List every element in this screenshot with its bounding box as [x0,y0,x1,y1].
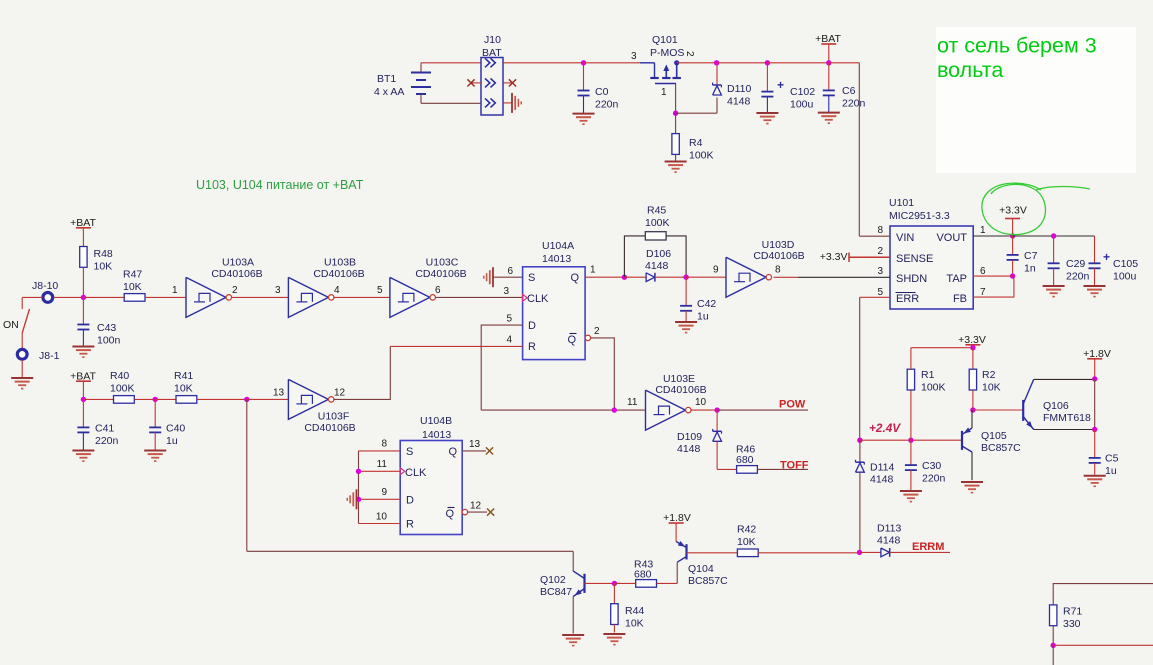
resistor R47 10K [83,296,124,298]
svg-text:100K: 100K [689,150,714,162]
svg-text:C41: C41 [95,423,114,435]
resistor R71 330 [1050,605,1057,626]
svg-text:9: 9 [713,265,719,276]
svg-text:100n: 100n [97,335,121,347]
node R41 to U103F [244,397,249,402]
svg-text:R45: R45 [647,205,666,217]
wire long bottom net [247,550,573,552]
svg-text:100K: 100K [921,382,946,394]
svg-text:VOUT: VOUT [936,232,967,244]
capacitor C40 1u [154,399,156,427]
resistor R43 680 [614,582,635,584]
svg-text:BC857C: BC857C [688,575,728,587]
svg-text:Q102: Q102 [540,574,566,586]
svg-text:1n: 1n [1024,263,1036,275]
svg-text:C105: C105 [1113,258,1138,270]
capacitor C0 [581,60,586,65]
wire to U103D input pin 9 [686,276,726,278]
diode D110 4148 [716,63,718,85]
ground below C102 [756,112,778,114]
capacitor C5 1u [1094,430,1096,458]
svg-text:U104A: U104A [542,240,574,252]
svg-text:2: 2 [877,246,883,257]
svg-text:1: 1 [661,87,667,98]
svg-text:D106: D106 [646,248,671,260]
capacitor C6 220n [828,63,830,91]
svg-text:1u: 1u [697,311,709,323]
svg-text:C30: C30 [922,460,941,472]
svg-text:MIC2951-3.3: MIC2951-3.3 [889,210,950,222]
node +2.4V on ERR line [857,438,862,443]
svg-text:R2: R2 [982,369,996,381]
svg-text:1: 1 [590,265,596,276]
wire gate node to D110 [676,112,717,114]
svg-text:CD40106B: CD40106B [304,422,355,434]
wire FB pin 7 [973,276,1014,297]
node at R48 bottom [81,295,86,300]
svg-text:330: 330 [1063,618,1081,630]
svg-text:CD40106B: CD40106B [211,268,262,280]
wire +1.8V rail [1094,379,1096,430]
svg-text:R41: R41 [174,370,193,382]
svg-text:R48: R48 [94,248,113,260]
wire U104A D pin 5 [481,325,522,410]
svg-text:4148: 4148 [645,260,669,272]
svg-text:1: 1 [172,285,178,296]
wire R71 to bottom edge [1052,645,1054,665]
svg-text:+: + [777,78,784,92]
resistor R44 10K [613,583,615,603]
wire U103F out to U104A R [334,346,390,399]
svg-text:4: 4 [334,285,340,296]
svg-text:S: S [528,272,535,284]
svg-text:1u: 1u [166,435,178,447]
ground below C40 [144,450,166,452]
svg-text:8: 8 [381,439,387,450]
wire SHDN pin 3 from U103D [774,276,799,278]
svg-text:220n: 220n [842,98,866,110]
ground at U104B inputs [356,489,358,509]
svg-text:R42: R42 [737,524,756,536]
svg-text:Q101: Q101 [652,34,678,46]
ground below C6 [818,112,840,114]
svg-text:TAP: TAP [946,273,967,285]
diode D109 4148 [716,410,718,431]
wire ERR pin 5 [860,296,890,298]
wire top right net [1053,584,1153,605]
ground below C0 [573,113,595,115]
wire J8-10 to switch [22,296,42,298]
capacitor C29 220n [1053,236,1055,263]
svg-text:D109: D109 [677,431,702,443]
svg-text:D: D [406,495,414,507]
svg-text:FB: FB [953,293,967,305]
ground below C41 [72,450,94,452]
svg-text:R47: R47 [123,269,142,281]
svg-text:P-MOS: P-MOS [650,47,684,59]
diode D114 4148 [859,440,861,461]
wire R2 to Q106 base [973,409,1023,411]
net label POW [691,409,717,411]
svg-text:CD40106B: CD40106B [655,384,706,396]
svg-text:R44: R44 [625,605,644,617]
capacitor C42 1u [685,277,687,306]
svg-text:C40: C40 [166,423,185,435]
svg-text:100u: 100u [1113,271,1137,283]
white note box [936,27,1136,173]
svg-text:+3.3V: +3.3V [820,251,848,263]
svg-text:R40: R40 [110,370,129,382]
svg-text:Q104: Q104 [688,563,714,575]
svg-text:1: 1 [980,225,986,236]
svg-text:10K: 10K [982,382,1001,394]
svg-text:100K: 100K [645,217,670,229]
ground below R44 [603,633,625,635]
svg-text:VIN: VIN [896,232,914,244]
svg-text:10K: 10K [625,618,644,630]
svg-text:Q106: Q106 [1043,400,1069,412]
svg-text:Q: Q [448,446,457,458]
resistor R1 100K [910,390,912,440]
capacitor C43 100n [82,297,84,324]
svg-text:6: 6 [980,266,986,277]
svg-text:FMMT618: FMMT618 [1043,412,1091,424]
svg-text:C5: C5 [1105,453,1119,465]
svg-text:11: 11 [627,397,638,408]
svg-text:3: 3 [877,266,883,277]
svg-text:D: D [528,320,536,332]
resistor R2 10K [972,348,974,370]
node below R71 [1051,643,1056,648]
svg-text:CD40106B: CD40106B [753,250,804,262]
svg-text:100K: 100K [110,383,135,395]
wire U104A R pin 4 [390,345,522,347]
svg-text:CD40106B: CD40106B [313,268,364,280]
wire +BAT rail to VIN corner [829,62,860,64]
ground below J8-1 [11,377,33,379]
svg-text:220n: 220n [922,473,946,485]
svg-text:C102: C102 [790,86,815,98]
svg-text:6: 6 [435,285,441,296]
svg-text:4 x AA: 4 x AA [374,86,404,98]
capacitor C30 220n [910,440,912,465]
ground below C43 [72,346,94,348]
wire U104B input bus [358,451,360,524]
svg-text:BC847: BC847 [540,586,572,598]
svg-text:Q105: Q105 [981,430,1007,442]
svg-text:5: 5 [377,285,383,296]
no-connect U104B Qbar pin 12 [462,509,467,514]
svg-text:6: 6 [507,266,513,277]
long wire down to Q102 [246,399,248,551]
diode D106 4148 [624,276,646,278]
svg-text:8: 8 [877,225,883,236]
wire battery top to J10 [421,62,481,64]
green hand-drawn circle [982,183,1046,234]
svg-text:4148: 4148 [870,474,894,486]
svg-text:10K: 10K [737,536,756,548]
svg-text:9: 9 [381,487,387,498]
ground at U104A S pin [493,276,523,278]
svg-text:U103B: U103B [324,257,356,269]
svg-text:C43: C43 [97,322,116,334]
svg-text:BC857C: BC857C [981,442,1021,454]
capacitor C7 1n [1012,236,1014,255]
svg-text:13: 13 [469,439,481,450]
wire TAP pin 6 [973,275,1012,277]
svg-text:U103A: U103A [222,257,254,269]
svg-text:U104B: U104B [420,415,452,427]
svg-text:SHDN: SHDN [896,273,927,285]
capacitor C102 100u [714,60,719,65]
svg-text:1u: 1u [1105,465,1117,477]
ground below Q105 [961,481,983,483]
capacitor C105 100u [1094,236,1096,263]
svg-text:10K: 10K [174,383,193,395]
ground below Q102 [562,634,584,636]
svg-text:S: S [406,446,413,458]
svg-text:TOFF: TOFF [780,460,809,472]
svg-text:C7: C7 [1024,250,1038,262]
wire U104A Qbar pin 2 [585,335,590,340]
wire U103C to U104A CLK [436,296,523,298]
svg-text:680: 680 [634,569,652,581]
svg-text:R: R [406,519,414,531]
resistor R40 100K [83,398,113,400]
svg-text:ON: ON [3,319,19,331]
svg-text:220n: 220n [95,435,119,447]
svg-text:J10: J10 [484,34,501,46]
svg-text:от сель берем 3: от сель берем 3 [937,34,1097,58]
no-connect U104B Q pin 13 [462,450,486,452]
svg-text:14013: 14013 [422,429,451,441]
svg-text:220n: 220n [595,99,619,111]
svg-text:D110: D110 [727,83,751,95]
svg-text:14013: 14013 [542,253,571,265]
ground below C42 [675,321,697,323]
resistor R48 10K [82,228,84,247]
wire J8-10 to node [54,296,84,298]
wire to U103E input pin 11 [481,409,645,411]
svg-text:J8-1: J8-1 [39,350,60,362]
svg-text:11: 11 [377,459,388,470]
wire U104A Q pin 1 to node [585,276,624,278]
wire VIN pin 8 [859,235,890,237]
svg-text:D114: D114 [870,462,894,474]
svg-text:220n: 220n [1066,271,1090,283]
svg-text:R71: R71 [1063,606,1082,618]
svg-text:Q: Q [567,334,576,346]
svg-text:ERRM: ERRM [912,541,944,553]
ground below C30 [900,490,922,492]
svg-text:3: 3 [503,286,509,297]
svg-text:4148: 4148 [677,443,701,455]
svg-text:680: 680 [736,454,754,466]
svg-text:C6: C6 [842,85,856,97]
svg-text:C0: C0 [595,86,609,98]
svg-text:D113: D113 [877,523,901,535]
svg-text:U103F: U103F [318,411,350,423]
svg-text:SENSE: SENSE [896,253,933,265]
ground below C29 [1043,285,1065,287]
svg-text:2: 2 [594,326,600,337]
no-connect X right of J10 pin 2 [503,82,513,84]
svg-text:12: 12 [334,388,346,399]
svg-text:4148: 4148 [877,535,901,547]
resistor R45 100K feedback [624,236,645,277]
svg-text:12: 12 [470,501,482,512]
svg-text:2: 2 [684,51,695,57]
svg-text:R1: R1 [921,369,935,381]
ground below R4 [665,161,687,163]
svg-text:5: 5 [506,314,512,325]
svg-text:Q: Q [570,272,579,284]
svg-text:C29: C29 [1066,258,1085,270]
svg-text:10: 10 [695,397,707,408]
wire C0 to Q101 [584,62,641,64]
wire VOUT pin 1 [973,235,1012,237]
svg-text:10: 10 [376,512,388,523]
svg-text:ERR: ERR [896,293,919,305]
svg-text:U103, U104 питание от +BAT: U103, U104 питание от +BAT [196,178,364,192]
svg-text:Q: Q [445,508,454,520]
wire J8-1 to ground [21,360,23,377]
no-connect X left of J10 pin 2 [471,82,481,84]
svg-text:10K: 10K [94,261,113,273]
svg-text:4148: 4148 [727,96,751,108]
wire C102 to +BAT node [767,62,828,64]
svg-text:U101: U101 [889,197,914,209]
wire Q102 base [585,582,615,584]
svg-text:CLK: CLK [527,293,549,305]
wire U103B to U103C [334,296,390,298]
svg-text:13: 13 [273,388,285,399]
resistor R41 10K [155,398,176,400]
svg-text:CD40106B: CD40106B [415,268,466,280]
svg-text:+: + [1103,250,1110,264]
ground below C105 [1084,285,1106,287]
svg-text:8: 8 [775,265,781,276]
wire +2.4V net [860,439,962,441]
svg-text:10K: 10K [123,281,142,293]
svg-text:5: 5 [877,287,883,298]
wire Q101 gate down to node [675,84,677,114]
svg-text:+3.3V: +3.3V [999,205,1027,217]
wire U103A to U103B [232,296,289,298]
svg-text:R: R [528,341,536,353]
svg-text:C42: C42 [697,298,716,310]
svg-text:2: 2 [232,285,238,296]
wire battery bottom to J10 [421,102,481,104]
svg-text:CLK: CLK [405,467,427,479]
svg-text:U103C: U103C [426,257,459,269]
wire J10 to node C0 [503,62,584,64]
resistor R46 680 [717,468,737,470]
svg-text:100u: 100u [790,99,814,111]
capacitor C41 220n [82,399,84,427]
svg-text:POW: POW [779,399,806,411]
svg-text:4: 4 [506,335,512,346]
node ERR to D113 [857,550,862,555]
ground below C5 [1084,475,1106,477]
resistor R4 100K [675,113,677,133]
svg-text:3: 3 [275,285,281,296]
svg-text:3: 3 [631,51,637,62]
svg-text:+2.4V: +2.4V [869,421,901,435]
resistor R42 10K [687,552,738,554]
svg-text:BT1: BT1 [377,73,396,85]
svg-text:J8-10: J8-10 [32,280,58,292]
svg-text:R4: R4 [689,137,703,149]
diode D113 4148 [860,551,881,553]
wire rail Q101 to D110 top [677,62,717,64]
svg-text:7: 7 [980,287,986,298]
ground at J10 pin 3 [503,102,512,104]
wire VOUT to output caps [1013,235,1095,237]
svg-text:вольта: вольта [937,58,1003,82]
